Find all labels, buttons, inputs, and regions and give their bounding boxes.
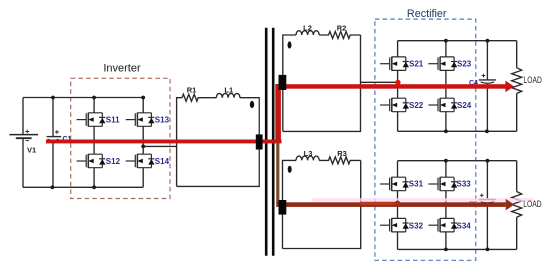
svg-text:Inverter: Inverter xyxy=(103,63,141,75)
svg-text:R2: R2 xyxy=(337,23,347,32)
svg-text:S12: S12 xyxy=(106,157,121,166)
svg-text:S14: S14 xyxy=(155,157,170,166)
svg-text:L3: L3 xyxy=(304,149,313,158)
svg-text:S33: S33 xyxy=(457,180,472,189)
svg-text:R1: R1 xyxy=(187,85,197,94)
svg-text:S31: S31 xyxy=(409,180,424,189)
svg-text:V1: V1 xyxy=(27,146,36,155)
svg-text:Rectifier: Rectifier xyxy=(407,8,447,20)
svg-text:LOAD: LOAD xyxy=(524,75,542,85)
svg-text:S22: S22 xyxy=(409,101,424,110)
svg-text:L1: L1 xyxy=(224,85,233,94)
svg-text:S13: S13 xyxy=(155,115,170,124)
svg-text:LOAD: LOAD xyxy=(523,199,541,209)
svg-text:S34: S34 xyxy=(457,221,472,230)
svg-text:L2: L2 xyxy=(303,23,312,32)
svg-text:S21: S21 xyxy=(409,60,424,69)
svg-text:S23: S23 xyxy=(457,60,472,69)
svg-text:R3: R3 xyxy=(337,149,347,158)
svg-text:S32: S32 xyxy=(409,221,424,230)
svg-text:S24: S24 xyxy=(457,101,472,110)
svg-text:S11: S11 xyxy=(106,115,120,124)
